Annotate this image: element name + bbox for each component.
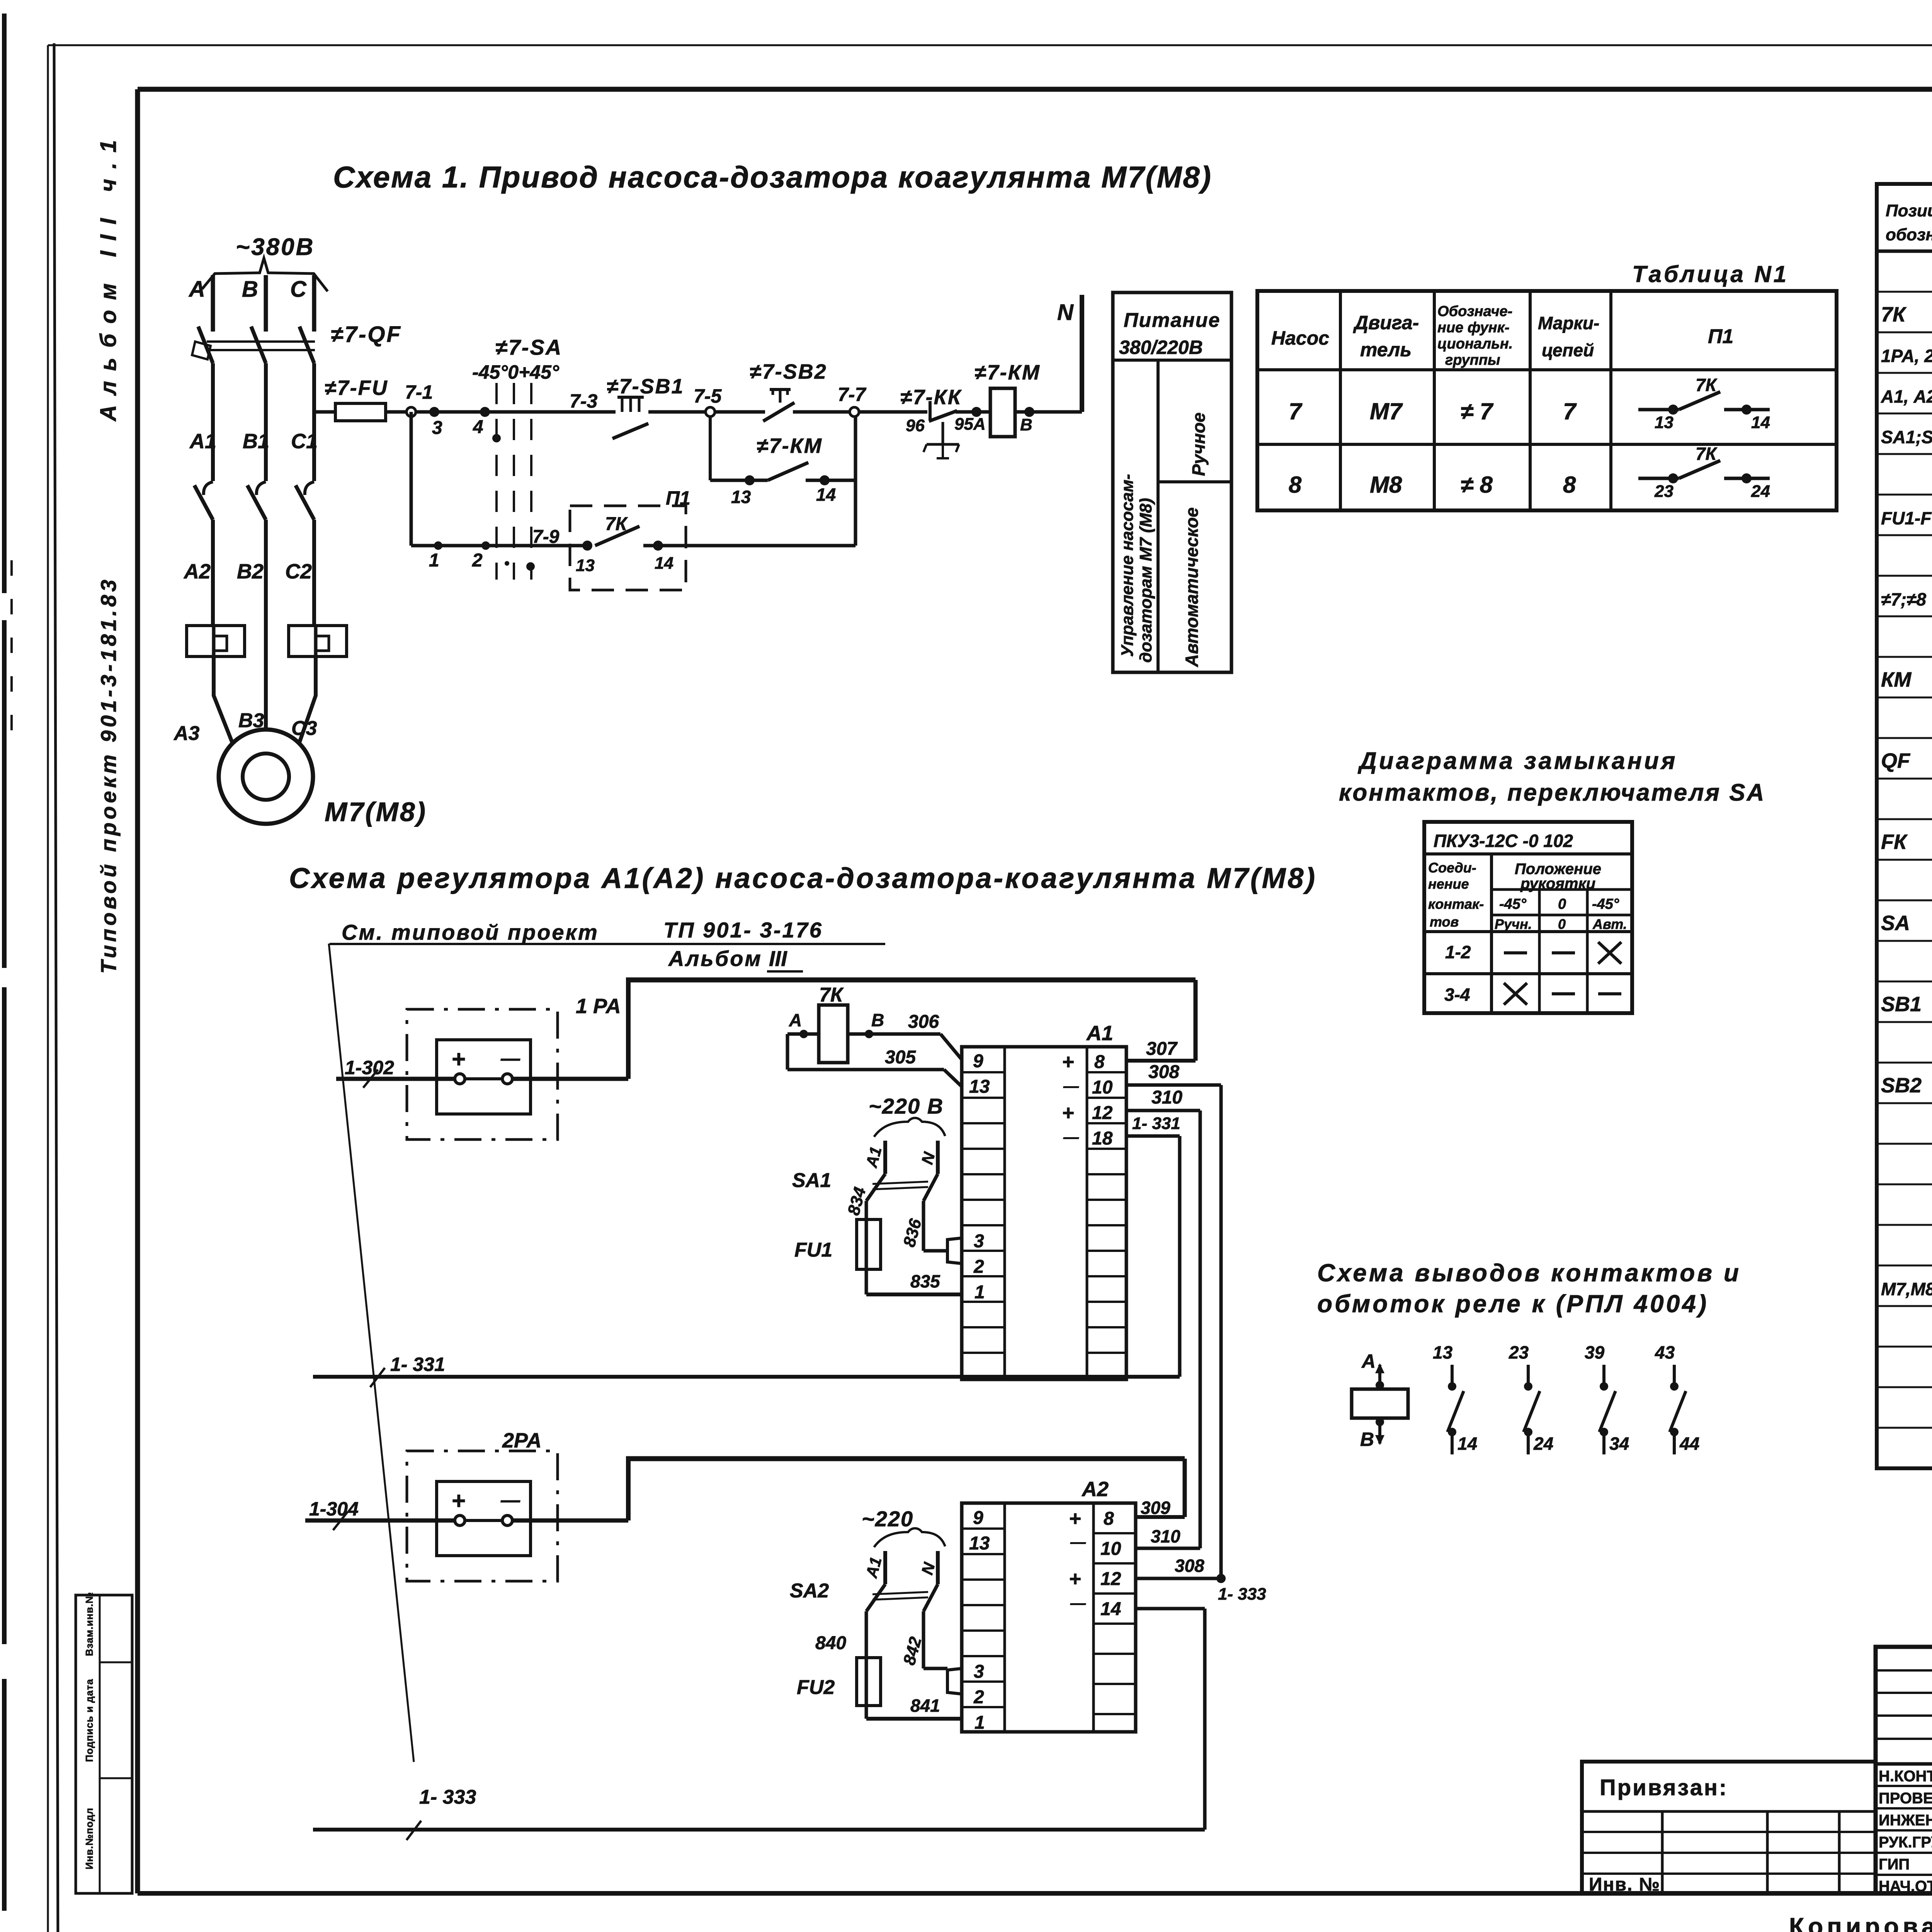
- svg-text:308: 308: [1175, 1556, 1204, 1576]
- svg-text:SА2: SА2: [790, 1580, 829, 1602]
- svg-text:2: 2: [973, 1687, 984, 1708]
- svg-text:14: 14: [1751, 413, 1770, 432]
- svg-text:9: 9: [973, 1508, 983, 1528]
- svg-text:308: 308: [1148, 1062, 1179, 1082]
- svg-text:1 РА: 1 РА: [576, 995, 621, 1018]
- svg-text:М7(М8): М7(М8): [325, 797, 427, 827]
- svg-text:А: А: [789, 1010, 802, 1030]
- svg-text:Насос: Насос: [1271, 327, 1329, 349]
- svg-text:N: N: [918, 1560, 939, 1577]
- svg-text:—: —: [500, 1048, 520, 1069]
- svg-text:+: +: [1069, 1567, 1081, 1590]
- svg-text:В: В: [871, 1010, 884, 1030]
- svg-text:контактов, переключателя SA: контактов, переключателя SA: [1339, 779, 1765, 806]
- svg-text:А1: А1: [862, 1555, 885, 1580]
- svg-text:9: 9: [973, 1051, 983, 1071]
- svg-text:~380В: ~380В: [236, 234, 315, 260]
- svg-text:С: С: [290, 277, 307, 302]
- svg-text:24: 24: [1751, 482, 1770, 501]
- svg-text:нение: нение: [1428, 876, 1469, 892]
- svg-text:8: 8: [1563, 472, 1576, 498]
- svg-text:1: 1: [429, 550, 439, 571]
- svg-text:841: 841: [910, 1696, 940, 1716]
- svg-text:А: А: [188, 277, 205, 302]
- svg-text:+: +: [451, 1488, 465, 1514]
- svg-text:+: +: [1069, 1507, 1081, 1530]
- svg-text:Диаграмма замыкания: Диаграмма замыкания: [1357, 748, 1677, 774]
- svg-text:10: 10: [1100, 1539, 1121, 1559]
- svg-text:10: 10: [1092, 1077, 1113, 1098]
- svg-text:Ручн.: Ручн.: [1495, 916, 1532, 932]
- svg-text:Привязан:: Привязан:: [1600, 1775, 1728, 1800]
- svg-text:П1: П1: [1708, 325, 1733, 348]
- svg-text:306: 306: [908, 1012, 939, 1032]
- svg-text:43: 43: [1655, 1342, 1675, 1362]
- svg-text:Ручное: Ручное: [1189, 412, 1209, 476]
- svg-text:~220 В: ~220 В: [869, 1094, 944, 1118]
- svg-text:N: N: [1057, 300, 1074, 325]
- svg-text:13: 13: [969, 1077, 990, 1097]
- svg-text:13: 13: [731, 487, 751, 507]
- svg-text:цепей: цепей: [1542, 340, 1594, 360]
- svg-text:96: 96: [906, 416, 925, 435]
- svg-text:В: В: [242, 277, 258, 302]
- svg-text:13: 13: [1655, 413, 1673, 432]
- svg-text:Двига-: Двига-: [1353, 312, 1419, 333]
- svg-text:SВ2: SВ2: [1881, 1074, 1922, 1097]
- svg-text:14: 14: [816, 485, 836, 505]
- svg-text:НАЧ.ОТД.: НАЧ.ОТД.: [1879, 1878, 1932, 1895]
- svg-text:ПКУ3-12С -0 102: ПКУ3-12С -0 102: [1434, 831, 1573, 851]
- svg-text:FU1: FU1: [794, 1239, 832, 1261]
- svg-text:Автоматическое: Автоматическое: [1182, 507, 1202, 667]
- svg-text:В: В: [1020, 415, 1032, 434]
- svg-text:контак-: контак-: [1428, 896, 1484, 912]
- svg-text:А2: А2: [183, 560, 211, 583]
- svg-text:1-2: 1-2: [1445, 942, 1471, 962]
- svg-text:1-302: 1-302: [345, 1057, 394, 1078]
- svg-text:А1, А2: А1, А2: [1881, 386, 1932, 406]
- svg-text:836: 836: [900, 1216, 925, 1249]
- svg-text:ПРОВЕР.: ПРОВЕР.: [1879, 1790, 1932, 1807]
- svg-text:7-3: 7-3: [570, 390, 597, 412]
- svg-text:7: 7: [1563, 398, 1577, 424]
- svg-text:4: 4: [473, 417, 483, 437]
- svg-text:~220: ~220: [862, 1507, 913, 1531]
- svg-text:7К: 7К: [1696, 375, 1718, 395]
- svg-text:34: 34: [1609, 1434, 1629, 1454]
- svg-text:+: +: [1062, 1050, 1074, 1073]
- svg-text:≠ 7: ≠ 7: [1461, 398, 1494, 424]
- svg-text:FU2: FU2: [797, 1676, 835, 1699]
- svg-text:Питание: Питание: [1124, 309, 1220, 332]
- svg-text:SВ1: SВ1: [1881, 993, 1922, 1016]
- svg-text:Н.КОНТР.: Н.КОНТР.: [1879, 1768, 1932, 1785]
- svg-text:95А: 95А: [954, 415, 986, 434]
- svg-text:Подпись и дата: Подпись и дата: [83, 1679, 95, 1762]
- svg-text:Альбом III ч.1: Альбом III ч.1: [96, 130, 121, 422]
- svg-text:+: +: [451, 1046, 465, 1073]
- svg-text:Взам.инв.№: Взам.инв.№: [83, 1592, 95, 1656]
- svg-text:≠ 8: ≠ 8: [1461, 472, 1493, 498]
- svg-text:≠7-SB2: ≠7-SB2: [750, 360, 827, 383]
- svg-text:44: 44: [1679, 1434, 1699, 1454]
- svg-text:8: 8: [1094, 1052, 1105, 1072]
- svg-text:С2: С2: [285, 560, 312, 583]
- svg-text:Авт.: Авт.: [1592, 916, 1627, 932]
- svg-text:-45°0+45°: -45°0+45°: [472, 361, 560, 383]
- svg-text:А2: А2: [1081, 1478, 1109, 1501]
- svg-text:Марки-: Марки-: [1538, 313, 1599, 333]
- svg-text:≠7-SA: ≠7-SA: [495, 335, 562, 359]
- svg-text:ТП 901- 3-176: ТП 901- 3-176: [663, 918, 823, 942]
- svg-text:2РА: 2РА: [502, 1429, 542, 1452]
- svg-text:III: III: [769, 946, 787, 971]
- svg-text:380/220В: 380/220В: [1119, 337, 1203, 358]
- svg-text:обмоток реле к (РПЛ 4004): обмоток реле к (РПЛ 4004): [1317, 1290, 1709, 1318]
- svg-text:309: 309: [1141, 1498, 1170, 1518]
- svg-text:Схема выводов контактов и: Схема выводов контактов и: [1317, 1259, 1741, 1287]
- svg-text:1: 1: [975, 1282, 985, 1303]
- svg-text:310: 310: [1151, 1087, 1182, 1108]
- svg-text:24: 24: [1533, 1434, 1553, 1454]
- svg-text:А1: А1: [862, 1145, 885, 1170]
- svg-text:А1: А1: [189, 430, 216, 453]
- svg-text:дозаторам М7 (М8): дозаторам М7 (М8): [1136, 498, 1155, 663]
- svg-text:12: 12: [1092, 1103, 1113, 1123]
- svg-text:N: N: [918, 1150, 939, 1166]
- svg-text:FК: FК: [1881, 830, 1908, 854]
- svg-text:842: 842: [900, 1634, 925, 1667]
- svg-text:-45°: -45°: [1499, 896, 1527, 912]
- svg-text:QF: QF: [1881, 749, 1911, 772]
- svg-text:23: 23: [1509, 1342, 1529, 1362]
- svg-text:ИНЖЕНЕР: ИНЖЕНЕР: [1879, 1812, 1932, 1829]
- svg-text:—: —: [1070, 1534, 1086, 1551]
- svg-text:7: 7: [1289, 398, 1303, 424]
- svg-text:0: 0: [1558, 916, 1566, 932]
- svg-text:А3: А3: [173, 722, 200, 745]
- svg-text:циональн.: циональн.: [1437, 336, 1513, 352]
- svg-text:3: 3: [974, 1662, 984, 1682]
- svg-text:Таблица N1: Таблица N1: [1632, 261, 1789, 287]
- svg-text:-45°: -45°: [1592, 896, 1619, 912]
- svg-text:А1: А1: [1086, 1022, 1113, 1045]
- svg-text:ГИП: ГИП: [1879, 1856, 1910, 1873]
- svg-text:14: 14: [655, 554, 673, 573]
- svg-text:Управление насосам-: Управление насосам-: [1118, 474, 1137, 657]
- svg-text:В2: В2: [237, 560, 264, 583]
- svg-text:группы: группы: [1445, 352, 1500, 368]
- svg-text:18: 18: [1092, 1128, 1113, 1149]
- svg-text:≠7-FU: ≠7-FU: [325, 376, 388, 400]
- svg-text:SА: SА: [1881, 912, 1910, 935]
- svg-text:М7,М8: М7,М8: [1881, 1279, 1932, 1299]
- svg-text:13: 13: [1433, 1342, 1453, 1362]
- svg-text:≠7-КМ: ≠7-КМ: [757, 434, 823, 457]
- svg-text:39: 39: [1585, 1342, 1605, 1362]
- svg-text:1- 331: 1- 331: [390, 1354, 445, 1375]
- svg-text:835: 835: [910, 1271, 940, 1291]
- svg-text:Позиц: Позиц: [1886, 201, 1932, 220]
- svg-text:М8: М8: [1370, 472, 1402, 498]
- svg-text:Инв. №: Инв. №: [1589, 1874, 1660, 1895]
- svg-text:0: 0: [1558, 896, 1566, 912]
- svg-text:—: —: [500, 1489, 520, 1511]
- svg-text:Соеди-: Соеди-: [1428, 860, 1476, 876]
- svg-text:FU1-FU2: FU1-FU2: [1881, 508, 1932, 528]
- svg-text:7К: 7К: [1696, 444, 1718, 464]
- svg-text:обозн.: обозн.: [1886, 225, 1932, 244]
- svg-text:+: +: [1062, 1101, 1074, 1124]
- svg-text:А: А: [1361, 1350, 1376, 1372]
- svg-text:307: 307: [1146, 1039, 1178, 1059]
- svg-text:7-1: 7-1: [405, 381, 433, 403]
- svg-text:РУК.ГРУП.: РУК.ГРУП.: [1879, 1834, 1932, 1851]
- svg-text:7-5: 7-5: [694, 385, 722, 407]
- svg-text:7К: 7К: [1881, 303, 1907, 326]
- svg-text:Обозначе-: Обозначе-: [1437, 303, 1512, 320]
- svg-text:14: 14: [1458, 1434, 1477, 1454]
- svg-text:Схема регулятора А1(А2) насоса: Схема регулятора А1(А2) насоса-дозатора-…: [289, 862, 1317, 894]
- svg-text:1РА, 2РА: 1РА, 2РА: [1881, 346, 1932, 366]
- svg-text:14: 14: [1100, 1599, 1121, 1619]
- svg-text:23: 23: [1654, 482, 1673, 501]
- svg-text:1- 333: 1- 333: [419, 1786, 476, 1808]
- svg-text:тель: тель: [1360, 339, 1412, 361]
- svg-text:В: В: [1360, 1429, 1374, 1450]
- svg-text:840: 840: [815, 1633, 846, 1653]
- svg-text:3: 3: [974, 1231, 984, 1252]
- svg-text:С1: С1: [291, 430, 318, 453]
- svg-text:≠7-КМ: ≠7-КМ: [975, 361, 1041, 384]
- svg-text:Альбом: Альбом: [668, 946, 762, 971]
- svg-text:П1: П1: [666, 487, 690, 509]
- svg-text:2: 2: [472, 550, 483, 571]
- svg-text:Копировал: Логинова: Копировал: Логинова: [1789, 1913, 1932, 1932]
- svg-text:8: 8: [1104, 1509, 1114, 1529]
- svg-text:≠7;≠8: ≠7;≠8: [1881, 589, 1926, 609]
- svg-text:тов: тов: [1430, 914, 1459, 930]
- svg-text:—: —: [1063, 1129, 1079, 1146]
- svg-text:Инв.№подл: Инв.№подл: [83, 1808, 95, 1869]
- svg-text:≠7-QF: ≠7-QF: [331, 322, 402, 347]
- svg-text:12: 12: [1100, 1569, 1121, 1589]
- svg-text:В1: В1: [243, 430, 269, 453]
- svg-text:8: 8: [1289, 472, 1302, 498]
- svg-text:1- 331: 1- 331: [1132, 1114, 1180, 1133]
- svg-text:1-304: 1-304: [309, 1498, 359, 1520]
- svg-text:7-9: 7-9: [532, 527, 560, 547]
- svg-text:рукоятки: рукоятки: [1520, 875, 1595, 892]
- svg-text:КМ: КМ: [1881, 668, 1912, 691]
- svg-text:См. типовой проект: См. типовой проект: [342, 920, 599, 944]
- svg-text:—: —: [1063, 1078, 1079, 1095]
- svg-text:3: 3: [432, 418, 442, 438]
- svg-text:7-7: 7-7: [838, 384, 866, 405]
- svg-text:305: 305: [885, 1047, 916, 1068]
- svg-text:13: 13: [969, 1533, 990, 1554]
- svg-text:1- 333: 1- 333: [1218, 1585, 1266, 1604]
- svg-text:13: 13: [576, 556, 595, 575]
- svg-text:М7: М7: [1370, 398, 1403, 424]
- svg-text:Схема 1. Привод насоса-дозатор: Схема 1. Привод насоса-дозатора коагулян…: [333, 160, 1212, 194]
- svg-text:3-4: 3-4: [1444, 985, 1470, 1005]
- svg-text:2: 2: [973, 1257, 984, 1277]
- svg-text:SА1;SА2: SА1;SА2: [1881, 427, 1932, 447]
- svg-text:≠7-SB1: ≠7-SB1: [607, 375, 684, 398]
- svg-text:ние функ-: ние функ-: [1437, 320, 1510, 336]
- svg-text:310: 310: [1151, 1526, 1180, 1546]
- svg-text:SА1: SА1: [792, 1169, 831, 1192]
- svg-text:1: 1: [975, 1713, 985, 1733]
- svg-text:—: —: [1070, 1595, 1086, 1612]
- svg-text:Типовой проект 901-3-181.83: Типовой проект 901-3-181.83: [96, 577, 121, 974]
- svg-text:7К: 7К: [819, 984, 844, 1006]
